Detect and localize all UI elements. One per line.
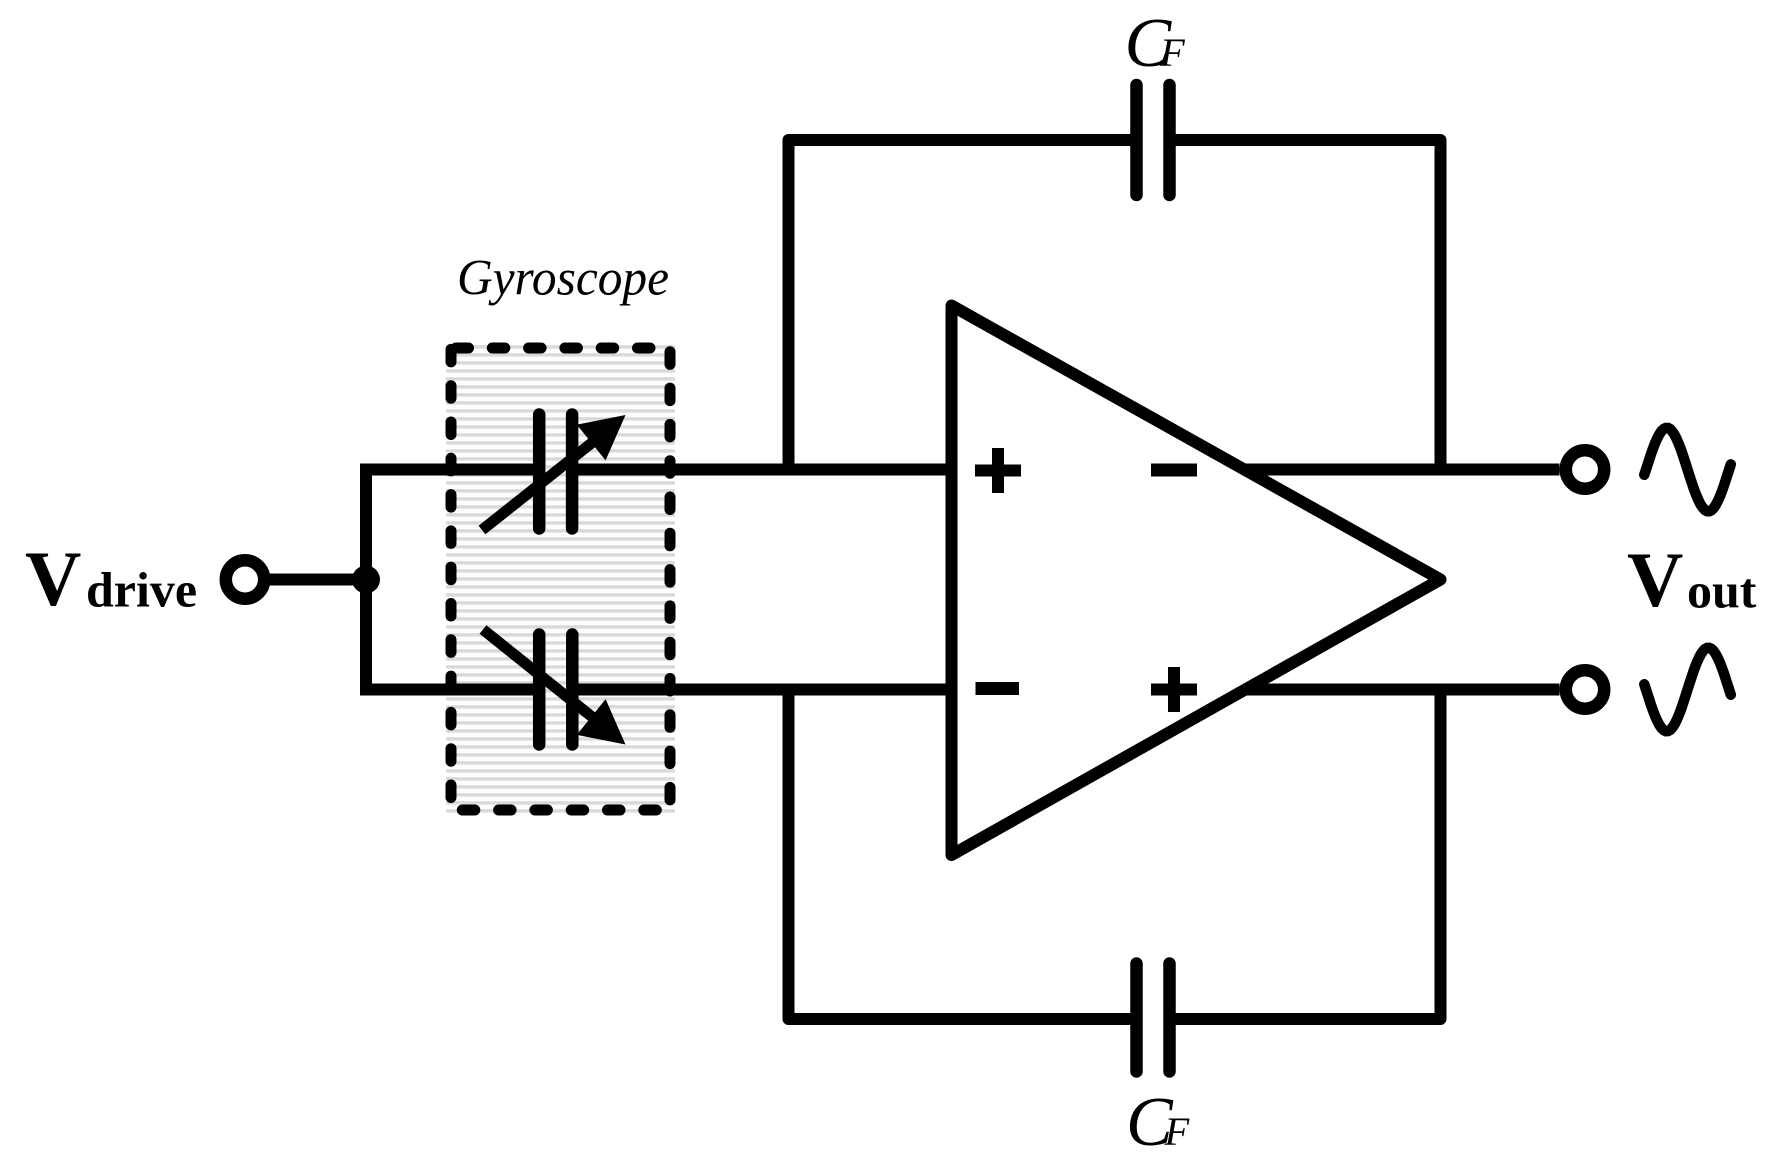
wire top branch right to op-amp — [572, 464, 958, 476]
capacitor C1 upper variable: plates — [539, 415, 572, 529]
svg-text:F: F — [1159, 30, 1186, 75]
wire input vertical — [360, 464, 372, 696]
svg-text:drive: drive — [86, 562, 197, 618]
sine symbol bottom output — [1644, 648, 1731, 731]
op-amp U1 plus output bottom — [1151, 667, 1197, 712]
terminal output minus — [1566, 670, 1604, 708]
op-amp U1 plus input top — [975, 448, 1021, 493]
terminal Vdrive input port — [226, 560, 264, 598]
label CF top — [1125, 5, 1187, 82]
wire top branch left — [360, 464, 540, 476]
capacitor C2 lower variable: plates — [539, 635, 572, 745]
gyroscope box dashed border — [451, 348, 670, 810]
svg-text:V: V — [1627, 536, 1683, 623]
op-amp U1 minus output top — [1151, 464, 1197, 477]
capacitor C1 arrow — [482, 415, 626, 530]
svg-text:V: V — [25, 535, 81, 622]
svg-text:F: F — [1164, 1109, 1191, 1154]
capacitor CF top plates — [1137, 85, 1170, 195]
label CF bottom — [1126, 1084, 1191, 1161]
wire feedback bottom right segment — [1170, 690, 1441, 1020]
terminal output plus — [1566, 450, 1604, 488]
wire bottom branch left — [360, 684, 540, 696]
wire bottom branch right to op-amp — [572, 684, 958, 696]
capacitor CF bottom plates — [1137, 964, 1170, 1072]
wire input stub — [269, 574, 366, 586]
wire feedback bottom left segment — [789, 690, 1137, 1020]
wire output plus — [1242, 464, 1560, 476]
label Vdrive — [25, 535, 197, 622]
svg-text:Gyroscope: Gyroscope — [457, 251, 669, 307]
capacitor C2 arrow — [483, 630, 626, 745]
wire feedback top left segment — [789, 140, 1137, 470]
junction input node — [352, 566, 380, 594]
op-amp U1 triangle — [952, 306, 1441, 856]
label Vout — [1627, 536, 1757, 623]
op-amp U1 minus input bottom — [976, 682, 1020, 695]
wire feedback top right segment — [1170, 140, 1441, 470]
gyroscope box fill — [446, 343, 675, 815]
sine symbol top output — [1644, 428, 1731, 511]
svg-text:out: out — [1687, 563, 1757, 619]
wire output minus — [1245, 684, 1560, 696]
